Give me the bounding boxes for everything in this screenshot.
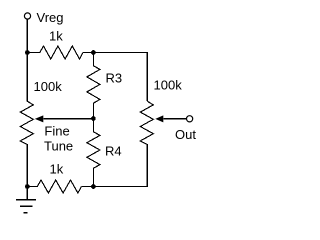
wiper arrow of right potentiometer [155, 115, 163, 122]
wire top-right segment with corner [93, 53, 147, 102]
wire right wiper to Out terminal [163, 118, 186, 120]
wire bottom-right segment with corner [93, 145, 147, 187]
terminal Out [187, 116, 193, 122]
resistor 1k (bottom) [37, 180, 81, 193]
wiper arrow of left potentiometer [35, 115, 44, 122]
junction at R3/R4 and fine-tune wiper [91, 116, 96, 121]
svg-text:Tune: Tune [44, 139, 73, 154]
svg-text:R4: R4 [105, 144, 122, 159]
svg-text:R3: R3 [106, 71, 123, 86]
wire ground stem [26, 187, 28, 200]
svg-text:Vreg: Vreg [37, 10, 64, 25]
wire top-left segment [27, 52, 40, 54]
resistor R4 [87, 119, 100, 187]
svg-text:1k: 1k [49, 29, 63, 44]
junction at top of R3 [91, 50, 96, 55]
wire fine-tune wiper to R3/R4 node [43, 118, 93, 120]
junction at ground rail and bottom resistor [25, 184, 30, 189]
resistor R3 [87, 53, 100, 119]
svg-text:Out: Out [175, 127, 196, 142]
junction at Vreg rail and top resistor [25, 50, 30, 55]
resistor 1k (top) [40, 46, 83, 59]
ground [16, 200, 36, 213]
potentiometer 100k Out (right) [140, 101, 153, 186]
svg-text:100k: 100k [154, 77, 183, 92]
wire bottom-left segment [27, 186, 37, 188]
wire top middle segment [83, 52, 93, 54]
junction at bottom of R4 [91, 184, 96, 189]
svg-text:1k: 1k [50, 162, 64, 177]
terminal Vreg [24, 13, 30, 19]
potentiometer 100k Fine Tune (left) [20, 53, 33, 187]
svg-text:Fine: Fine [44, 124, 69, 139]
wire Vreg stem [26, 19, 28, 52]
wire bottom middle segment [82, 186, 94, 188]
svg-text:100k: 100k [34, 79, 63, 94]
